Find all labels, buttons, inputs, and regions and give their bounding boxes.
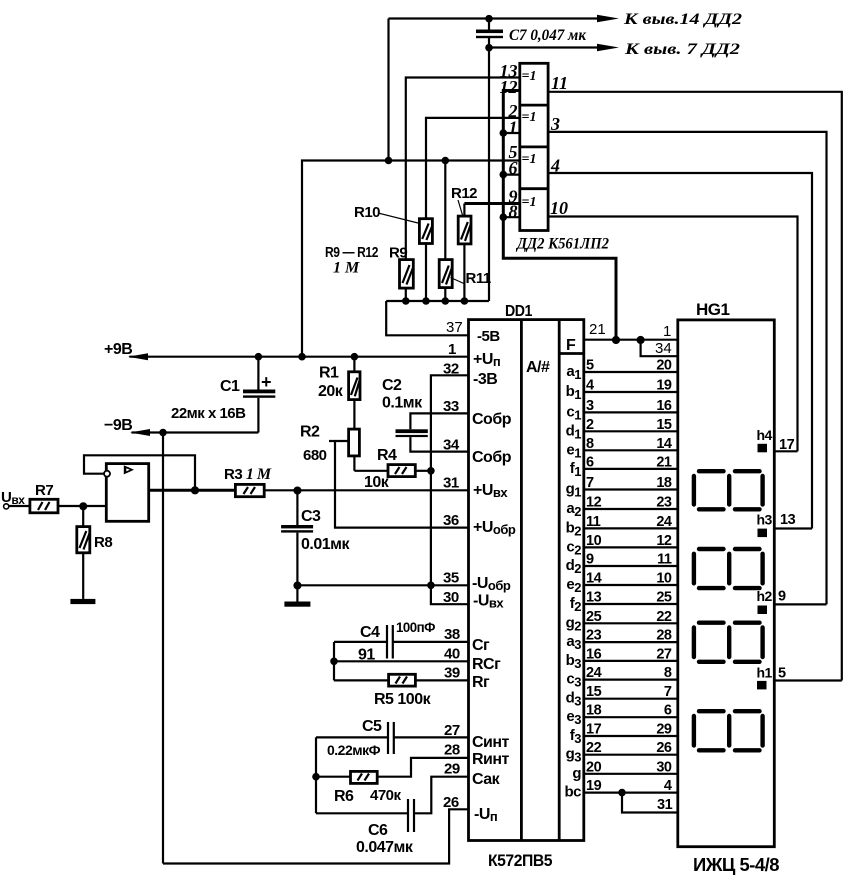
- svg-text:−9В: −9В: [104, 417, 132, 434]
- svg-text:11: 11: [551, 73, 568, 93]
- svg-text:31: 31: [443, 475, 459, 492]
- svg-text:12: 12: [500, 77, 518, 97]
- svg-text:=1: =1: [522, 110, 537, 125]
- svg-text:32: 32: [443, 361, 459, 378]
- resistor R12: [458, 204, 471, 302]
- node R1 rail: [351, 353, 359, 361]
- svg-text:33: 33: [443, 398, 459, 415]
- svg-text:12: 12: [586, 495, 602, 511]
- svg-text:31: 31: [657, 797, 673, 813]
- svg-text:R11: R11: [466, 270, 491, 287]
- svg-text:DD1: DD1: [505, 303, 533, 320]
- wire -9V long vertical: [162, 433, 164, 864]
- capacitor C5: [316, 722, 469, 754]
- ground C3: [284, 602, 310, 607]
- capacitor C3: [281, 490, 313, 601]
- svg-text:-Uвх: -Uвх: [473, 593, 504, 611]
- resistor R8: [77, 506, 90, 599]
- svg-text:F: F: [566, 337, 576, 354]
- wire gate2 output 3 to h2: [548, 132, 826, 605]
- svg-text:10: 10: [656, 571, 672, 587]
- node R11 on pin5 line: [442, 157, 450, 165]
- wire DD1 to HG1 row g3 (22 to 26): [584, 754, 678, 756]
- svg-text:Синт: Синт: [472, 734, 510, 751]
- svg-text:HG1: HG1: [696, 300, 730, 319]
- IC DD1 box: [469, 320, 584, 841]
- svg-text:R10: R10: [354, 204, 380, 221]
- svg-text:С5: С5: [362, 718, 382, 735]
- capacitor C7: [476, 19, 503, 48]
- node DD2 bus on F line: [612, 336, 620, 344]
- svg-text:С7 0,047 мк: С7 0,047 мк: [509, 27, 587, 44]
- svg-text:6: 6: [586, 454, 594, 470]
- svg-text:R1: R1: [319, 365, 339, 382]
- svg-text:16: 16: [586, 646, 602, 662]
- svg-text:К выв. 7 ДД2: К выв. 7 ДД2: [624, 41, 741, 58]
- svg-text:h2: h2: [757, 588, 773, 604]
- wire R3 to DD1 pin31: [264, 489, 468, 491]
- svg-text:14: 14: [656, 436, 672, 452]
- wire DD1 pin 28 to R6: [377, 758, 468, 777]
- svg-text:-Uп: -Uп: [474, 806, 497, 824]
- wire DD1 to HG1 row c2 (10 to 12): [584, 546, 678, 548]
- wire DD2 pin 2: [426, 118, 520, 219]
- capacitor C2: [396, 413, 469, 451]
- svg-text:30: 30: [443, 589, 459, 606]
- node rail to gate line: [298, 353, 306, 361]
- svg-text:+9В: +9В: [104, 341, 132, 358]
- svg-text:25: 25: [656, 590, 672, 606]
- node R11 bus: [442, 297, 450, 305]
- svg-text:1: 1: [509, 118, 518, 138]
- svg-text:С4: С4: [360, 624, 380, 641]
- svg-text:Сак: Сак: [472, 771, 501, 788]
- node C3 top: [293, 487, 301, 495]
- display digit 4 (7-segment): [694, 711, 763, 750]
- svg-text:=1: =1: [522, 195, 537, 210]
- svg-text:15: 15: [586, 684, 602, 700]
- display digit 2 (7-segment): [694, 549, 763, 588]
- wire DD1 to HG1 row d2 (9 to 11): [584, 565, 678, 567]
- svg-text:20: 20: [586, 759, 602, 775]
- svg-text:1 М: 1 М: [333, 260, 360, 277]
- svg-text:28: 28: [656, 628, 672, 644]
- node pin 6: [500, 171, 508, 179]
- display digit 1 (7-segment): [694, 471, 763, 509]
- wire +9V to gate pin 5: [302, 161, 520, 357]
- wire h2 to DD2 out3: [774, 603, 826, 605]
- node vertical pin35: [427, 582, 435, 590]
- svg-text:Rг: Rг: [472, 674, 490, 691]
- wire tap vertical to pin36: [335, 441, 469, 528]
- svg-text:470к: 470к: [370, 787, 402, 804]
- svg-text:17: 17: [586, 722, 602, 738]
- node C3 bottom pin35: [293, 582, 301, 590]
- svg-text:23: 23: [656, 495, 672, 511]
- wire pin 1 stub: [503, 132, 520, 134]
- svg-text:0.1мк: 0.1мк: [382, 395, 423, 412]
- svg-text:Собр: Собр: [472, 449, 512, 466]
- svg-text:6: 6: [664, 703, 672, 719]
- wire DD1 to HG1 row a2 (12 to 23): [584, 508, 678, 510]
- display digit 3 (7-segment): [694, 623, 763, 662]
- svg-text:0.01мк: 0.01мк: [301, 536, 350, 553]
- svg-text:29: 29: [444, 761, 460, 778]
- node pin 8: [500, 213, 508, 221]
- svg-text:9: 9: [778, 589, 786, 605]
- svg-text:27: 27: [656, 646, 672, 662]
- wire DD1 to HG1 row f1 (6 to 21): [584, 468, 678, 470]
- node C1 plus rail: [255, 353, 263, 361]
- wire R2 tap to pin 36: [329, 440, 349, 442]
- svg-text:1: 1: [448, 341, 456, 358]
- svg-text:10: 10: [586, 533, 602, 549]
- wire DD1 to HG1 row f3 (17 to 29): [584, 735, 678, 737]
- wire F pin21 to HG1 pin1: [584, 339, 678, 341]
- resistor R11: [439, 161, 452, 302]
- svg-text:R4: R4: [377, 447, 397, 464]
- wire C7 down to R bus: [488, 48, 490, 302]
- svg-text:R12: R12: [451, 185, 477, 202]
- svg-text:100пФ: 100пФ: [396, 620, 436, 635]
- arrow -9V: [130, 429, 150, 436]
- wire DD2 pin 13: [406, 78, 520, 260]
- resistor R10: [419, 219, 432, 301]
- wire op-amp output to DD1 pin 31: [149, 489, 236, 492]
- svg-text:25: 25: [586, 609, 602, 625]
- svg-text:37: 37: [446, 319, 463, 336]
- decimal point h3: [758, 529, 768, 538]
- wire DD1 pin 29 to C6: [414, 777, 469, 814]
- node C7 bottom junction: [485, 44, 493, 52]
- svg-text:22: 22: [656, 609, 672, 625]
- wire DD1 to HG1 row bc (19 to 4): [584, 791, 678, 793]
- input terminal: [4, 504, 9, 509]
- svg-text:34: 34: [443, 437, 460, 454]
- svg-text:0.047мк: 0.047мк: [356, 839, 414, 856]
- node bc to 31 branch: [618, 789, 626, 797]
- svg-text:18: 18: [656, 475, 672, 491]
- svg-text:15: 15: [656, 417, 672, 433]
- svg-text:13: 13: [586, 590, 602, 606]
- svg-text:+: +: [261, 372, 271, 392]
- leader line R12: [458, 200, 463, 215]
- svg-text:-3В: -3В: [473, 371, 497, 388]
- wire DD2 input bus (pins 12,1,6,8 to backplane): [503, 91, 616, 340]
- svg-text:R6: R6: [334, 788, 354, 805]
- svg-text:30: 30: [656, 759, 672, 775]
- svg-text:ДД2 К561ЛП2: ДД2 К561ЛП2: [515, 236, 609, 253]
- svg-text:4: 4: [664, 778, 672, 794]
- svg-text:34: 34: [655, 340, 672, 357]
- wire R2 bottom to R4: [354, 470, 388, 472]
- svg-text:12: 12: [656, 533, 672, 549]
- capacitor C1: [243, 357, 275, 433]
- capacitor C6: [316, 799, 414, 832]
- svg-text:19: 19: [656, 378, 672, 394]
- leader line R10: [378, 213, 418, 223]
- wire DD1 to HG1 row c3 (24 to 8): [584, 678, 678, 680]
- svg-text:10к: 10к: [364, 474, 390, 491]
- svg-text:А/#: А/#: [526, 359, 550, 376]
- wire branch to HG1 pin31: [622, 793, 678, 813]
- resistor R1: [349, 357, 360, 429]
- svg-text:С3: С3: [301, 508, 321, 525]
- svg-text:3: 3: [586, 398, 594, 414]
- display HG1 box: [678, 320, 775, 847]
- svg-text:R7: R7: [35, 482, 53, 499]
- wire +9V rail: [129, 356, 468, 358]
- svg-text:8: 8: [664, 665, 672, 681]
- svg-text:С6: С6: [368, 822, 388, 839]
- svg-text:680: 680: [303, 447, 327, 464]
- node R9 bus: [402, 297, 410, 305]
- svg-text:С1: С1: [220, 378, 240, 395]
- svg-text:5: 5: [586, 358, 594, 374]
- wire DD1 to HG1 row g2 (25 to 22): [584, 622, 678, 624]
- resistor R4: [388, 465, 431, 477]
- svg-text:+Uвх: +Uвх: [473, 482, 508, 500]
- wire input to R7: [9, 505, 30, 507]
- svg-text:Собр: Собр: [472, 411, 512, 428]
- svg-text:h3: h3: [757, 512, 773, 528]
- IC DD2 gate column: [520, 63, 548, 230]
- node pin34 branch on F line: [637, 336, 645, 344]
- wire gate1 output 11 to h1: [548, 92, 842, 681]
- svg-text:К выв.14 ДД2: К выв.14 ДД2: [623, 11, 743, 28]
- svg-text:7: 7: [664, 684, 672, 700]
- svg-text:18: 18: [586, 703, 602, 719]
- node R4 junction: [427, 467, 435, 475]
- wire C4 R5 left bus: [333, 642, 335, 681]
- svg-text:h1: h1: [757, 665, 773, 681]
- svg-text:11: 11: [586, 514, 601, 530]
- svg-text:R9 — R12: R9 — R12: [325, 244, 378, 261]
- wire DD1 to HG1 row e2 (14 to 10): [584, 584, 678, 586]
- svg-text:Rинт: Rинт: [472, 751, 510, 768]
- wire gate4 output 10 to h4: [548, 217, 797, 452]
- svg-text:10: 10: [550, 198, 568, 218]
- svg-text:26: 26: [656, 740, 672, 756]
- svg-text:R3 1 М: R3 1 М: [224, 466, 272, 483]
- svg-text:9: 9: [586, 552, 594, 568]
- svg-text:-5В: -5В: [477, 328, 500, 345]
- svg-text:40: 40: [444, 646, 460, 663]
- svg-text:Сг: Сг: [472, 637, 490, 654]
- svg-text:14: 14: [586, 571, 602, 587]
- svg-text:20: 20: [656, 358, 672, 374]
- svg-text:=1: =1: [522, 69, 537, 84]
- wire DD1 to HG1 row d1 (2 to 15): [584, 430, 678, 432]
- svg-text:24: 24: [656, 514, 672, 530]
- wire DD1 to HG1 row b1 (4 to 19): [584, 391, 678, 393]
- svg-text:К572ПВ5: К572ПВ5: [488, 851, 552, 870]
- resistor R3: [235, 484, 264, 496]
- svg-text:2: 2: [586, 417, 594, 433]
- op-amp U1: [104, 464, 149, 522]
- resistor R6: [316, 771, 377, 783]
- node feedback output: [191, 486, 199, 494]
- node -9V down: [159, 429, 167, 437]
- resistor R7: [30, 499, 58, 513]
- wire DD1 pin 40: [334, 660, 469, 662]
- svg-text:17: 17: [779, 437, 795, 453]
- wire h3 to DD2 out4: [774, 527, 812, 529]
- svg-text:8: 8: [509, 202, 518, 222]
- svg-text:1: 1: [663, 323, 671, 340]
- node C7 top junction: [485, 15, 493, 23]
- wire C5 R6 C6 left bus: [315, 737, 317, 813]
- svg-text:7: 7: [586, 475, 594, 491]
- leader line R11: [451, 278, 466, 285]
- decimal point h4: [758, 444, 768, 453]
- svg-text:22: 22: [586, 740, 602, 756]
- wire resistor bottom bus: [386, 300, 489, 302]
- svg-text:R5 100к: R5 100к: [374, 691, 432, 708]
- svg-text:R8: R8: [94, 534, 112, 551]
- wire DD1 to HG1 row a3 (23 to 28): [584, 641, 678, 643]
- wire DD1 to HG1 row b2 (11 to 24): [584, 527, 678, 529]
- node pin 1: [500, 129, 508, 137]
- decimal point h2: [758, 606, 768, 615]
- svg-text:ИЖЦ 5-4/8: ИЖЦ 5-4/8: [693, 855, 779, 875]
- svg-text:91: 91: [358, 647, 375, 664]
- svg-text:13: 13: [780, 512, 796, 528]
- wire DD1 to HG1 row e3 (18 to 6): [584, 716, 678, 718]
- wire DD1 to HG1 row e1 (8 to 14): [584, 449, 678, 451]
- wire DD1 to HG1 row d3 (15 to 7): [584, 698, 678, 700]
- svg-text:39: 39: [444, 665, 460, 682]
- svg-text:24: 24: [586, 665, 602, 681]
- wire branch to HG1 pin34: [641, 340, 678, 357]
- resistor R9: [400, 260, 414, 301]
- wire to DD2 pin 14: [389, 17, 603, 19]
- wire R7 to op-amp: [58, 505, 106, 507]
- wire DD1 to HG1 row a1 (5 to 20): [584, 371, 678, 373]
- wire pin 35: [297, 584, 468, 586]
- wire W1 left vertical: [387, 19, 389, 161]
- svg-text:38: 38: [444, 626, 460, 643]
- svg-text:19: 19: [586, 778, 602, 794]
- wire pin 6 stub: [503, 174, 520, 176]
- svg-text:R9: R9: [389, 245, 407, 262]
- svg-text:4: 4: [586, 378, 594, 394]
- svg-text:20к: 20к: [318, 383, 344, 400]
- node R8 tap: [79, 502, 87, 510]
- svg-text:RСг: RСг: [472, 656, 501, 673]
- ground R8: [70, 599, 95, 604]
- svg-text:=1: =1: [522, 152, 537, 167]
- svg-text:28: 28: [444, 742, 460, 759]
- wire DD1 pin 26 to bottom rail: [163, 809, 469, 863]
- wire to DD2 pin 7: [489, 46, 602, 48]
- svg-text:35: 35: [443, 570, 459, 587]
- svg-text:R2: R2: [300, 424, 320, 441]
- wire DD1 to HG1 row b3 (16 to 27): [584, 660, 678, 662]
- svg-text:+Uобр: +Uобр: [473, 519, 516, 537]
- arrow +9V: [128, 353, 148, 360]
- wire DD1 to HG1 row g1 (7 to 18): [584, 488, 678, 490]
- wire pin32 R4 pin35 pin30 vertical: [431, 375, 469, 604]
- wire h4 to DD2 out10: [774, 450, 797, 452]
- svg-text:С2: С2: [382, 377, 402, 394]
- wire gate3 output 4 to h3: [548, 173, 812, 529]
- capacitor C4: [334, 625, 469, 659]
- node pin40 left: [330, 658, 338, 666]
- wire DD1 to HG1 row f2 (13 to 25): [584, 603, 678, 605]
- resistor R5: [334, 674, 469, 686]
- node W1 on pin5 line: [385, 157, 393, 165]
- arrow to DD2 pin 14: [597, 15, 619, 22]
- resistor R2: [349, 429, 360, 471]
- svg-text:g: g: [572, 765, 581, 782]
- svg-text:-Uобр: -Uобр: [472, 575, 511, 593]
- svg-text:h4: h4: [757, 427, 773, 443]
- node R12 bus: [461, 297, 469, 305]
- wire h1 to DD2 out11: [774, 679, 842, 681]
- svg-text:21: 21: [656, 454, 672, 470]
- wire DD1 to HG1 row g (20 to 30): [584, 773, 678, 775]
- svg-text:+Uп: +Uп: [473, 351, 500, 369]
- svg-text:bc: bc: [564, 784, 581, 801]
- decimal point h1: [757, 681, 767, 690]
- wire feedback loop: [84, 455, 195, 490]
- wire -9V rail: [132, 431, 259, 433]
- svg-text:29: 29: [656, 722, 672, 738]
- svg-text:0.22мкФ: 0.22мкФ: [327, 742, 381, 758]
- wire DD1 to HG1 row c1 (3 to 16): [584, 411, 678, 413]
- wire DD2 pin 9 from R12: [464, 202, 519, 205]
- wire pin 8 stub: [503, 216, 520, 218]
- svg-text:6: 6: [509, 158, 518, 178]
- svg-text:5: 5: [778, 666, 786, 682]
- node R6 left bus: [312, 773, 320, 781]
- svg-text:11: 11: [657, 552, 672, 568]
- wire bus to DD1 pin 37: [386, 301, 468, 335]
- svg-text:36: 36: [443, 512, 459, 529]
- svg-text:8: 8: [586, 436, 594, 452]
- node R10 bus: [422, 297, 430, 305]
- arrow to DD2 pin 7: [597, 44, 619, 51]
- svg-text:16: 16: [656, 398, 672, 414]
- svg-text:22мк х 16В: 22мк х 16В: [171, 405, 246, 422]
- svg-text:21: 21: [589, 321, 606, 338]
- svg-text:23: 23: [586, 628, 602, 644]
